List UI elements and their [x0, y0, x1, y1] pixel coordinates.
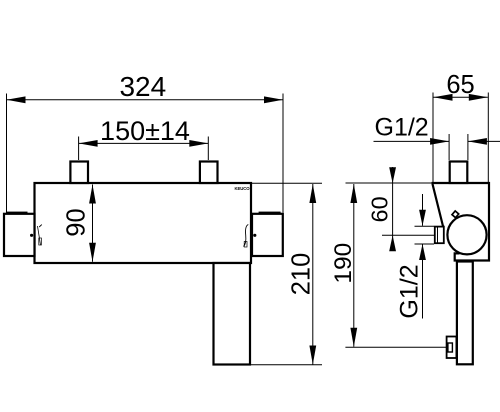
- svg-text:324: 324: [119, 71, 166, 102]
- dimension G1/2 (top): [374, 114, 500, 161]
- dimension 60: [367, 167, 434, 251]
- svg-text:150±14: 150±14: [100, 116, 190, 146]
- svg-text:KEUCO: KEUCO: [234, 186, 250, 191]
- svg-text:190: 190: [330, 243, 357, 284]
- hose outlet stub (side view): [435, 227, 444, 244]
- svg-text:65: 65: [446, 71, 474, 99]
- right knob index dot: [253, 234, 256, 237]
- right inlet connector: [200, 162, 218, 184]
- svg-text:60: 60: [367, 196, 393, 222]
- dimension 324: [7, 71, 284, 213]
- right volume scale mark: [244, 225, 249, 248]
- svg-text:90: 90: [63, 208, 91, 236]
- dimension 65: [433, 71, 488, 182]
- right knob (flow handle): [252, 212, 283, 256]
- left knob index dot: [30, 234, 33, 237]
- knob circle (side view): [447, 215, 486, 254]
- wall bracket on pipe: [447, 337, 457, 359]
- svg-text:210: 210: [287, 253, 315, 296]
- svg-text:G1/2: G1/2: [375, 114, 429, 142]
- dimension 150±14: [79, 116, 209, 160]
- mixer body (side view): [432, 183, 490, 261]
- left temperature scale mark: [38, 225, 42, 245]
- svg-text:G1/2: G1/2: [395, 264, 423, 318]
- dimension 210: [251, 183, 322, 364]
- left inlet connector: [70, 162, 88, 184]
- safety button bump: [452, 211, 459, 218]
- dimension 190: [330, 183, 447, 347]
- dimension G1/2 (hose outlet): [395, 194, 434, 319]
- KEUCO logo: [234, 186, 250, 191]
- side inlet connector: [450, 162, 468, 184]
- outlet pipe (side view): [457, 262, 473, 365]
- left knob (thermostat handle): [4, 212, 35, 256]
- outlet pipe (front view): [214, 263, 251, 365]
- mixer body (front view): [35, 183, 252, 263]
- dimension 90: [63, 185, 96, 262]
